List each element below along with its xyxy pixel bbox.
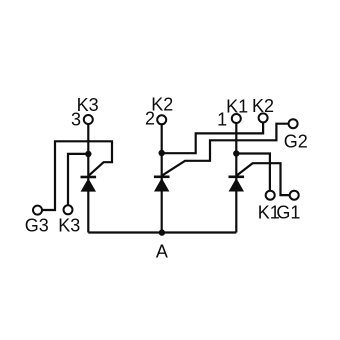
svg-text:A: A [156,242,168,262]
terminal G1 [290,191,299,200]
svg-text:G2: G2 [284,131,308,151]
svg-text:K3: K3 [58,216,80,236]
wire G1 path (G1 terminal to gate of thyristor 1) [236,163,289,195]
terminal 1/K1 top [232,114,241,123]
svg-text:2: 2 [145,109,155,129]
thyristor 3 cathode bar [81,176,97,179]
wire K2 main vertical [161,125,163,233]
terminal 2/K2 top [157,115,166,124]
wire K2 interconnect (junction to right K2 terminal) [162,123,263,154]
svg-text:3: 3 [71,110,81,130]
svg-text:1: 1 [217,110,227,130]
thyristor 2 cathode bar [154,176,170,179]
terminal K1 aux [266,191,275,200]
terminal G2 [289,119,298,128]
wire K1 main vertical [235,123,237,232]
svg-text:K2: K2 [252,96,274,116]
wire anode bus A [88,231,236,233]
thyristor 3 body [81,178,96,191]
wire G2 path (G2 terminal to gate of thyristor 2) [162,124,289,176]
svg-text:G3: G3 [25,216,49,236]
thyristor 2 body [154,178,169,192]
wire G3 path (G3 terminal to gate of thyristor 3) [42,141,112,210]
terminal G3 [33,206,42,215]
junction node A [159,229,165,235]
terminal K3 aux [64,205,73,214]
svg-text:G1: G1 [276,203,300,223]
terminal 3/K3 top [84,115,93,124]
wire K1 aux path (junction to aux K1 terminal) [236,154,270,191]
thyristor 1 body [229,178,244,192]
thyristor 1 cathode bar [229,176,245,179]
junction node K1 [233,150,239,156]
wire K3 aux path (junction to aux K3 terminal) [68,154,88,205]
junction node K2 [159,150,165,156]
junction node K3 [85,151,91,157]
terminal K2 right [259,113,268,122]
wire K3 main vertical (terminal 3 to anode bus) [87,124,89,232]
svg-text:K1: K1 [226,96,248,116]
